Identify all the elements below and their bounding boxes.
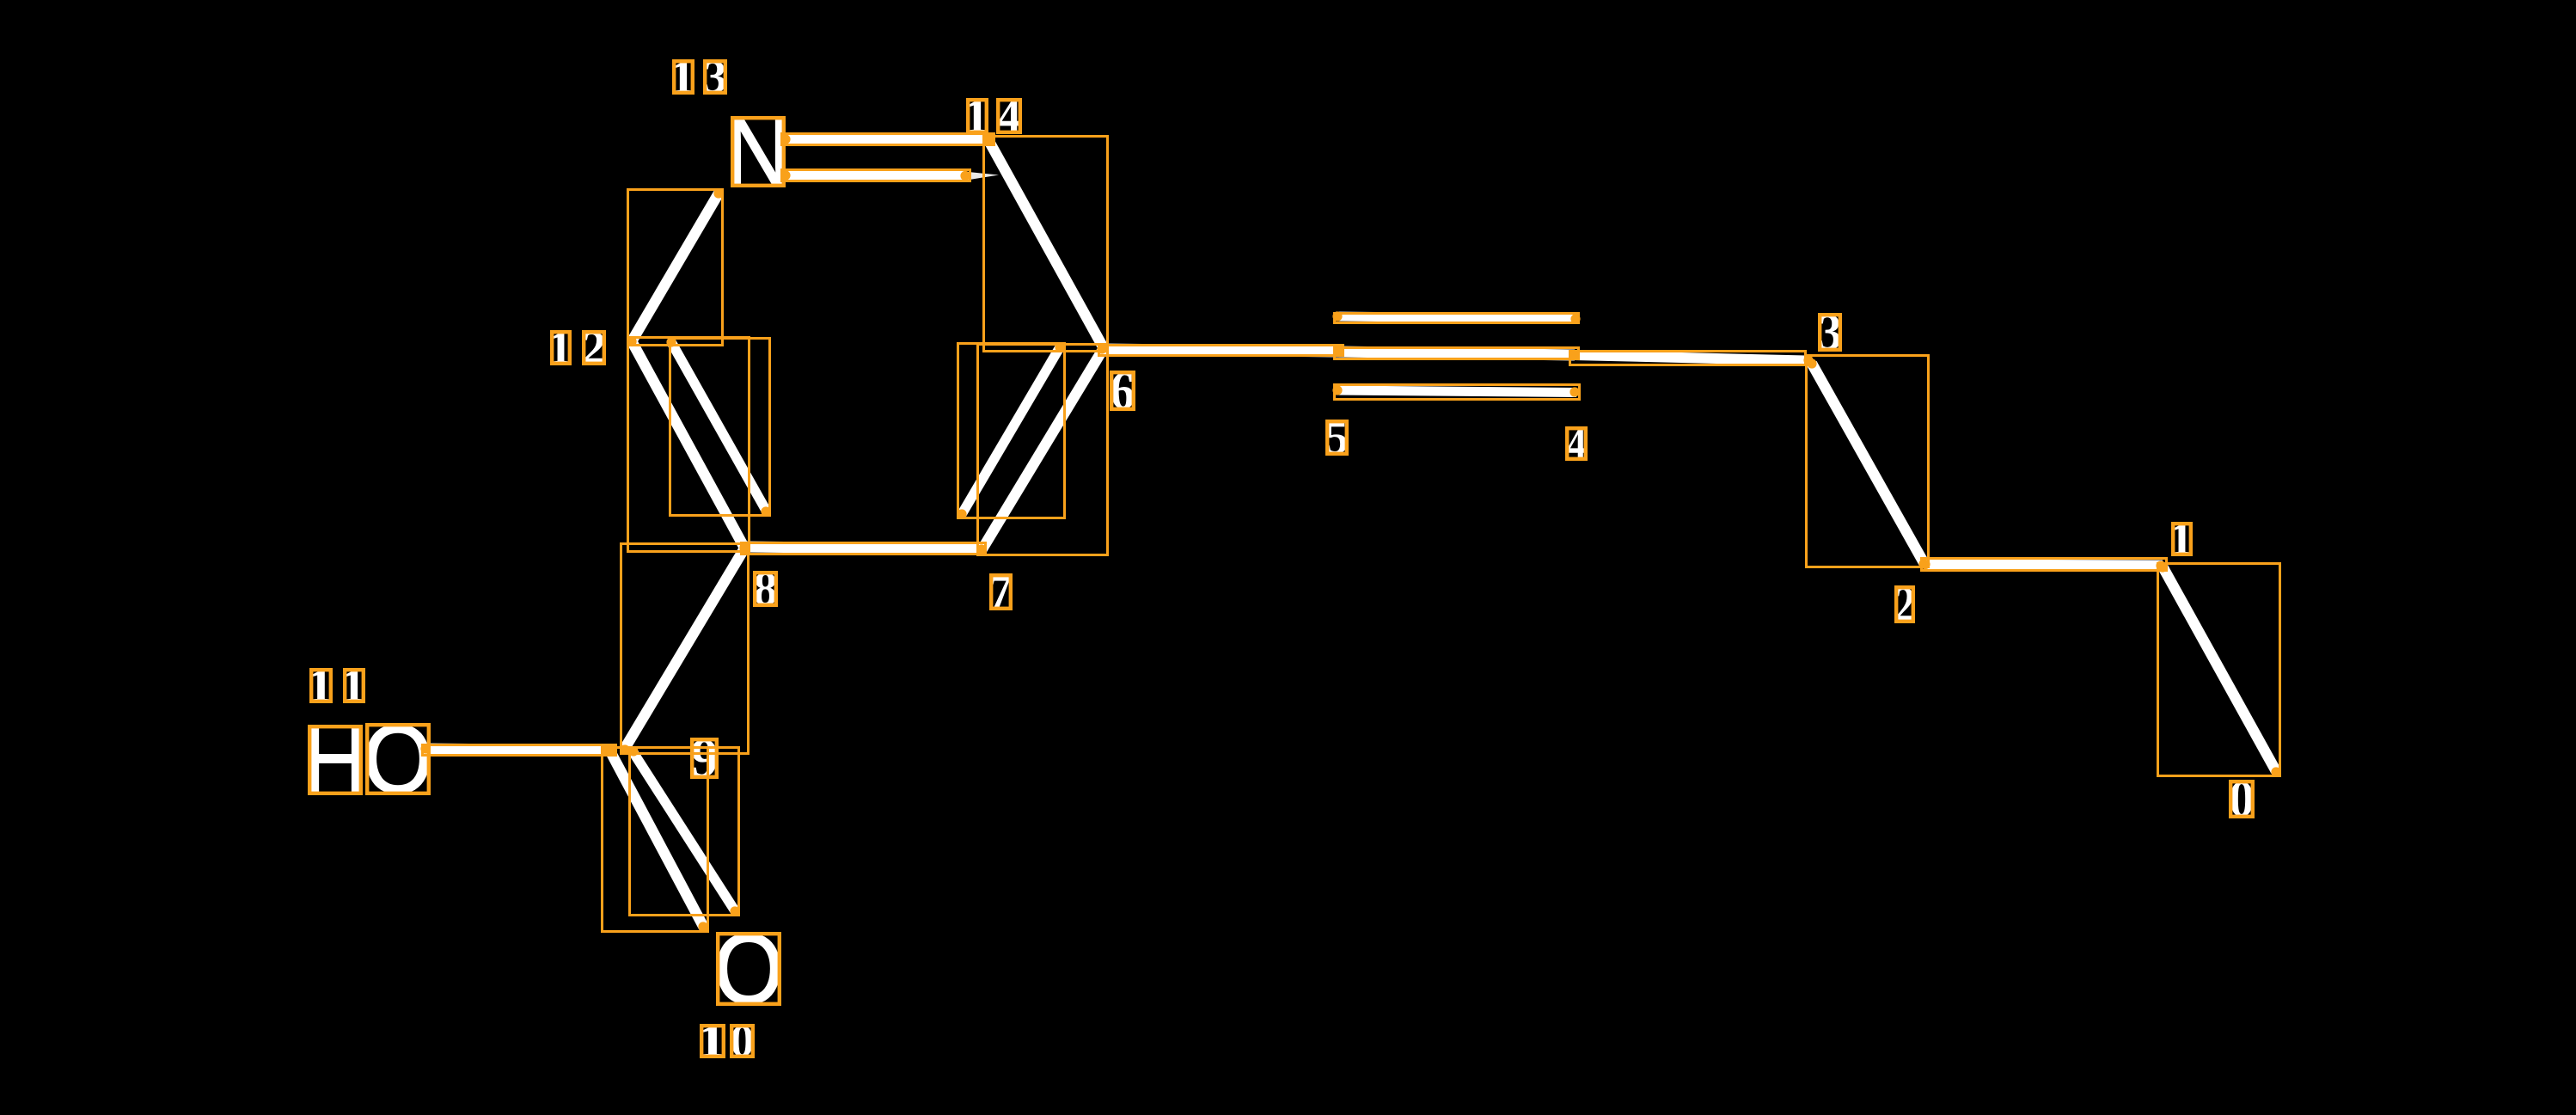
- bbox of triple bond middle line: [1335, 348, 1579, 359]
- label first digit 1 of index 11: [311, 670, 331, 701]
- endpoint dot bond2-1 at C2: [1920, 560, 1930, 569]
- bond 5-4 triple bond top line: [1336, 316, 1577, 319]
- box of H label: [309, 726, 361, 793]
- box of index digit 3 of atom 3: [1820, 315, 1840, 350]
- box of digit 1 of index 14: [968, 100, 987, 132]
- bbox of bond 8-12 outer line: [628, 338, 750, 552]
- taper of bond 13-14 inner line: [964, 172, 999, 181]
- endpoint dot triple top left: [1332, 311, 1342, 321]
- endpoint dot bond6-5 at C6: [1097, 344, 1106, 353]
- box of index digit 5 of atom 5: [1327, 421, 1347, 454]
- label digit 1 of index 12: [552, 332, 570, 364]
- endpoint dot bond6-7 inner top: [1055, 342, 1064, 352]
- box of carbonyl O label: [718, 934, 780, 1004]
- atom 13 nitrogen label N: [732, 118, 784, 186]
- endpoint dot bond14-6 at C14: [983, 135, 993, 144]
- box of digit 4 of index 14: [998, 100, 1020, 132]
- bbox of bond 12-13: [628, 190, 723, 346]
- bbox of bond 9-10 inner line: [630, 748, 739, 916]
- bbox of triple bond top line: [1335, 314, 1579, 323]
- label index digit 3 of atom 3: [1820, 315, 1840, 350]
- endpoint dot bond6-7 inner bottom: [957, 509, 966, 518]
- label digit 1 of index 10: [701, 1026, 724, 1057]
- bond 13-14 (N=C14) inner double-bond line: [786, 175, 966, 176]
- endpoint dot bond8-9 at C8: [739, 543, 749, 553]
- endpoint dot bond9-11 at C9: [602, 745, 611, 755]
- label index digit 5 of atom 5: [1327, 421, 1347, 454]
- endpoint dot bond4-3 at C3: [1803, 355, 1813, 365]
- box of digit 0 of index 10: [731, 1026, 753, 1057]
- bond 8-12 (C8=C12) outer line: [632, 341, 744, 548]
- endpoint dot bond12-13 at C12: [627, 337, 636, 346]
- bond 5-4 triple bond middle line: [1337, 352, 1575, 355]
- bbox of bond 9-11: [423, 745, 616, 756]
- endpoint dot bond13-14 outer at C14: [984, 136, 994, 145]
- endpoint dot bond13-14 inner at N: [780, 170, 790, 180]
- label index digit 6 of atom 6: [1111, 372, 1134, 409]
- endpoint dot bond13-14 inner right: [960, 171, 970, 181]
- endpoint dot bond9-10 inner at C9: [628, 746, 638, 756]
- label digit 1 of index 13: [674, 61, 693, 93]
- box of first digit 1 of index 11: [311, 670, 331, 701]
- label digit 2 of index 12: [584, 332, 604, 364]
- endpoint dot bond3-2 at C2: [1918, 559, 1928, 568]
- box of digit 1 of index 10: [701, 1026, 724, 1057]
- atom 11 hydroxyl label O: [367, 725, 429, 793]
- bond 6-7 (C6=C7) inner double-bond line: [962, 347, 1060, 514]
- bbox of bond 13-14 outer line: [782, 134, 994, 145]
- bond 3-2 single bond: [1812, 364, 1924, 564]
- bbox of bond 9-10 outer line: [603, 748, 708, 932]
- endpoint dot bond8-12 outer at C8: [739, 542, 749, 552]
- bond 4-3 single bond: [1574, 355, 1806, 361]
- bbox of bond 4-3: [1570, 352, 1806, 365]
- endpoint dot bond13-14 outer at N: [780, 134, 790, 144]
- bbox of bond 8-9: [621, 544, 749, 754]
- atom 11 hydroxyl label H: [309, 726, 361, 793]
- bond 14-6 ring single bond: [988, 140, 1104, 348]
- box of digit 3 of index 13: [705, 61, 725, 93]
- bbox of triple bond bottom line: [1335, 385, 1580, 400]
- box of index digit 1 of atom 1: [2173, 524, 2191, 554]
- endpoint dot bond9-10 inner at O: [730, 906, 739, 916]
- endpoint dot bond6-5 at C5: [1333, 346, 1343, 356]
- box of digit 1 of index 13: [674, 61, 693, 93]
- label index digit 7 of atom 7: [991, 575, 1011, 609]
- endpoint dot bond8-9 at C9: [620, 744, 629, 754]
- bond 9-11 single bond to HO: [427, 749, 608, 750]
- box of N label: [732, 118, 784, 186]
- endpoint dot bond7-8 at C8: [740, 542, 750, 551]
- bond 9-10 (C=O) outer line: [610, 751, 704, 928]
- bond 2-1 single bond: [1925, 565, 2163, 566]
- bond 6-5 single bond: [1103, 349, 1339, 352]
- bond 9-10 (C=O) inner double-bond line: [633, 751, 736, 912]
- bond 6-7 (C6=C7) outer line: [982, 348, 1104, 550]
- endpoint dot bond8-12 outer at C12: [627, 336, 636, 346]
- endpoint dot triple bottom right: [1569, 387, 1579, 396]
- endpoint dot triple middle left: [1333, 347, 1343, 357]
- label digit 4 of index 14: [998, 100, 1020, 132]
- endpoint dot triple middle right: [1569, 350, 1578, 359]
- box of index digit 6 of atom 6: [1111, 372, 1134, 409]
- label second digit 1 of index 11: [345, 670, 364, 701]
- label index digit 0 of atom 0: [2230, 781, 2253, 817]
- bond 1-0 single bond: [2163, 567, 2276, 771]
- endpoint dot bond9-10 outer at O: [698, 922, 707, 931]
- box of index digit 4 of atom 4: [1567, 428, 1586, 459]
- box of index digit 2 of atom 2: [1896, 587, 1913, 622]
- endpoint dot bond9-11 at HO: [420, 744, 430, 753]
- endpoint dot triple top right: [1570, 314, 1580, 323]
- box of index digit 9 of atom 9: [692, 739, 717, 777]
- endpoint dot bond6-7 outer at C6: [1098, 343, 1108, 352]
- bbox of bond 14-6: [984, 137, 1108, 352]
- endpoint dot bond6-7 outer at C7: [976, 545, 986, 554]
- endpoint dot bond12-13 at N: [713, 188, 723, 198]
- endpoint dot bond8-12 inner top: [666, 337, 676, 346]
- endpoint dot bond2-1 at C1: [2156, 561, 2165, 570]
- label index digit 9 of atom 9: [692, 739, 717, 777]
- bbox of bond 1-0: [2158, 564, 2280, 776]
- box of index digit 8 of atom 8: [755, 573, 776, 605]
- box of O label of HO: [367, 725, 429, 793]
- box of second digit 1 of index 11: [345, 670, 364, 701]
- endpoint dot bond1-0 at C0: [2271, 767, 2280, 776]
- bond 7-8 ring single bond: [744, 547, 982, 549]
- endpoint dot bond8-12 inner bottom: [761, 506, 770, 516]
- box of digit 2 of index 12: [584, 332, 604, 364]
- label digit 3 of index 13: [705, 61, 725, 93]
- bbox of bond 13-14 inner line: [782, 170, 970, 181]
- label index digit 8 of atom 8: [755, 573, 776, 605]
- bbox of bond 8-12 inner line: [670, 339, 770, 516]
- label digit 1 of index 14: [968, 100, 987, 132]
- bond 8-12 (C8=C12) inner double-bond line: [671, 342, 767, 512]
- bbox of bond 3-2: [1807, 356, 1929, 567]
- bond 8-9 single bond: [624, 548, 744, 750]
- box of index digit 7 of atom 7: [991, 575, 1011, 609]
- endpoint dot bond7-8 at C7: [976, 544, 986, 554]
- bbox of bond 6-7 inner line: [958, 344, 1065, 518]
- bbox of bond 7-8: [742, 543, 986, 554]
- bond 5-4 triple bond bottom line: [1336, 390, 1576, 393]
- bbox of bond 6-5: [1099, 346, 1343, 356]
- label index digit 4 of atom 4: [1567, 428, 1586, 459]
- bbox of bond 2-1: [1922, 559, 2167, 571]
- bond 13-14 (N=C14) outer line: [786, 139, 994, 141]
- atom 10 carbonyl oxygen label O: [718, 934, 780, 1004]
- label index digit 1 of atom 1: [2173, 524, 2191, 554]
- endpoint dot bond3-2 at C3: [1807, 358, 1816, 368]
- bbox of bond 6-7 outer line: [978, 345, 1108, 555]
- label digit 0 of index 10: [731, 1026, 753, 1057]
- label index digit 2 of atom 2: [1896, 587, 1913, 622]
- box of index digit 0 of atom 0: [2230, 781, 2253, 817]
- box of digit 1 of index 12: [552, 332, 570, 364]
- endpoint dot bond9-10 outer at C9: [606, 746, 615, 756]
- endpoint dot bond4-3 at C4: [1569, 351, 1578, 360]
- endpoint dot bond1-0 at C1: [2157, 562, 2167, 572]
- endpoint dot triple bottom left: [1332, 385, 1342, 395]
- endpoint dot bond14-6 at C6: [1098, 343, 1107, 352]
- bond 12-13 ring single bond to N: [632, 193, 719, 341]
